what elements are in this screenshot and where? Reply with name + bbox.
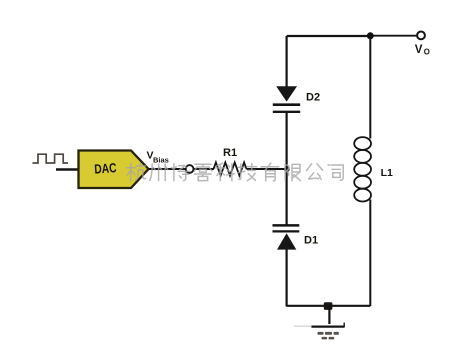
svg-text:V: V <box>415 44 423 56</box>
svg-text:O: O <box>424 47 430 56</box>
svg-text:D1: D1 <box>304 234 318 246</box>
svg-text:Bias: Bias <box>153 156 169 165</box>
svg-text:D2: D2 <box>306 91 320 103</box>
svg-text:DAC: DAC <box>94 160 118 177</box>
svg-text:L1: L1 <box>381 167 393 179</box>
svg-text:R1: R1 <box>223 147 237 159</box>
